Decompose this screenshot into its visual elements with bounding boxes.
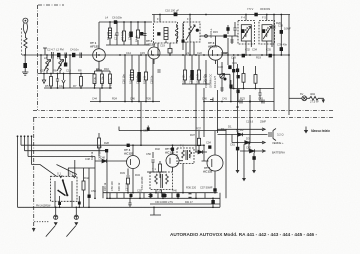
svg-text:PM JA15R3W: PM JA15R3W (36, 204, 51, 207)
svg-text:AC125: AC125 (165, 150, 175, 154)
svg-text:AC125: AC125 (124, 151, 134, 155)
svg-text:C50: C50 (146, 152, 151, 156)
svg-text:D3: D3 (246, 137, 250, 141)
svg-text:C25 10n: C25 10n (188, 74, 192, 84)
svg-text:C6 100n: C6 100n (112, 16, 123, 20)
svg-text:R37: R37 (196, 127, 201, 131)
svg-text:R20: R20 (276, 21, 281, 25)
svg-text:S 2: S 2 (69, 172, 74, 176)
svg-text:C22: C22 (197, 51, 202, 55)
svg-text:F 5: F 5 (262, 16, 266, 20)
svg-text:C43: C43 (258, 97, 263, 101)
svg-text:R24: R24 (112, 97, 117, 101)
svg-text:C41: C41 (222, 97, 227, 101)
svg-text:GAMMA OC: GAMMA OC (209, 74, 213, 88)
svg-text:R4 1k: R4 1k (134, 35, 138, 42)
svg-text:R41 47: R41 47 (185, 201, 193, 204)
svg-text:L4: L4 (105, 16, 108, 20)
svg-text:AF126: AF126 (208, 44, 217, 48)
svg-text:C60 100MF 2,5V: C60 100MF 2,5V (155, 201, 173, 204)
svg-text:6V: 6V (300, 92, 303, 96)
svg-text:R7: R7 (73, 84, 77, 88)
svg-text:C16 10n: C16 10n (121, 74, 125, 84)
svg-text:C57 50: C57 50 (125, 182, 129, 191)
svg-text:C32: C32 (245, 48, 250, 52)
svg-text:OSCILL.: OSCILL. (209, 28, 213, 38)
svg-text:C17 40n: C17 40n (135, 74, 139, 84)
svg-text:R9 2,2k: R9 2,2k (93, 76, 97, 86)
svg-text:R2 22k: R2 22k (106, 31, 110, 40)
svg-text:C29: C29 (231, 56, 236, 60)
svg-text:C2 4.7: C2 4.7 (47, 48, 55, 52)
svg-text:R3 8,2k: R3 8,2k (120, 30, 124, 40)
svg-text:L9: L9 (186, 51, 189, 55)
svg-text:40Ω: 40Ω (310, 92, 315, 96)
svg-text:R8: R8 (78, 69, 82, 73)
svg-text:C19: C19 (160, 44, 165, 48)
svg-text:C46: C46 (130, 97, 135, 101)
svg-text:R5: R5 (45, 84, 49, 88)
svg-text:C58: C58 (91, 189, 96, 193)
svg-text:C34: C34 (252, 48, 257, 52)
svg-text:R10: R10 (104, 67, 109, 71)
svg-text:C26 40n: C26 40n (202, 74, 206, 84)
svg-text:C44: C44 (92, 97, 97, 101)
svg-text:R37: R37 (190, 133, 195, 137)
svg-text:Massa telaio: Massa telaio (311, 129, 330, 133)
svg-text:L7: L7 (57, 56, 60, 60)
svg-text:R36 12: R36 12 (117, 182, 121, 191)
svg-text:R23: R23 (240, 97, 245, 101)
svg-text:F 4: F 4 (241, 16, 245, 20)
svg-text:C15 5n: C15 5n (109, 77, 113, 86)
svg-text:AF125: AF125 (146, 42, 155, 46)
svg-text:C4 10n: C4 10n (70, 48, 79, 52)
svg-text:F 1: F 1 (157, 17, 161, 21)
svg-text:OFF/ON: OFF/ON (260, 7, 270, 11)
svg-text:R14 A 12T: R14 A 12T (213, 75, 217, 88)
svg-text:T 2: T 2 (180, 144, 184, 148)
svg-text:R10 10k: R10 10k (101, 76, 105, 86)
svg-text:R40: R40 (172, 189, 177, 193)
svg-text:R12 4,7k: R12 4,7k (128, 73, 132, 84)
svg-text:27,5 W: 27,5 W (310, 100, 319, 104)
svg-text:R13 1k: R13 1k (142, 75, 146, 84)
svg-text:C56: C56 (157, 189, 162, 193)
svg-text:R9: R9 (96, 67, 100, 71)
svg-text:R17 5,6k: R17 5,6k (195, 73, 199, 84)
svg-text:C30: C30 (218, 65, 223, 69)
svg-text:R16 12k: R16 12k (181, 74, 185, 84)
svg-text:C10 100 pF: C10 100 pF (165, 9, 179, 13)
svg-text:C48: C48 (85, 157, 90, 161)
svg-text:C15: C15 (140, 51, 145, 55)
svg-text:25MF: 25MF (260, 121, 267, 124)
svg-text:R32: R32 (155, 147, 160, 151)
svg-text:F 2: F 2 (187, 17, 191, 21)
svg-text:R19: R19 (256, 56, 261, 60)
svg-text:C13: C13 (66, 69, 71, 73)
svg-text:R15: R15 (213, 30, 218, 34)
svg-text:C57 50MF: C57 50MF (200, 186, 213, 190)
svg-text:C53: C53 (143, 129, 148, 133)
svg-text:R22: R22 (97, 145, 102, 149)
svg-text:C35: C35 (266, 48, 271, 52)
svg-text:AC132: AC132 (203, 169, 213, 173)
svg-text:S 1: S 1 (57, 172, 62, 176)
svg-text:BATTERIA: BATTERIA (272, 151, 285, 155)
svg-text:C62: C62 (246, 146, 251, 150)
svg-text:C54: C54 (206, 141, 211, 145)
svg-text:L6: L6 (44, 56, 47, 60)
svg-text:R33: R33 (120, 171, 125, 175)
svg-text:R26: R26 (146, 97, 151, 101)
svg-text:C31: C31 (232, 61, 237, 65)
svg-text:C14: C14 (126, 51, 131, 55)
svg-text:T 1: T 1 (152, 167, 156, 171)
svg-text:C7 5n: C7 5n (113, 33, 117, 40)
svg-text:AUTORADIO AUTOVOX Modd. RA 44: AUTORADIO AUTOVOX Modd. RA 441 - 442 - 4… (170, 232, 318, 237)
svg-text:C39 40n: C39 40n (277, 43, 288, 47)
svg-text:C53 100MF: C53 100MF (140, 176, 144, 190)
svg-text:7.5 V: 7.5 V (247, 7, 253, 11)
svg-text:VERDE +: VERDE + (272, 141, 284, 145)
svg-text:10MF: 10MF (284, 27, 291, 31)
svg-text:R28 1k: R28 1k (90, 151, 94, 160)
svg-text:C61: C61 (230, 143, 235, 147)
svg-text:R34: R34 (135, 173, 140, 177)
svg-text:3,2 Ω: 3,2 Ω (277, 133, 284, 137)
svg-text:R42: R42 (84, 176, 89, 180)
svg-text:C18 5n: C18 5n (149, 75, 153, 84)
svg-text:C45 10M: C45 10M (97, 149, 101, 160)
svg-text:D1: D1 (221, 127, 225, 131)
svg-text:R35 1k: R35 1k (103, 182, 107, 191)
svg-text:C11: C11 (40, 69, 45, 73)
svg-text:C40: C40 (202, 97, 207, 101)
svg-text:C1 5,6: C1 5,6 (246, 121, 254, 124)
svg-text:D1: D1 (228, 125, 232, 129)
svg-text:L2 FM: L2 FM (56, 48, 64, 52)
svg-text:C8 40n: C8 40n (127, 31, 131, 40)
svg-text:C56 100: C56 100 (110, 181, 114, 191)
svg-text:C28: C28 (223, 51, 228, 55)
svg-text:R28: R28 (104, 141, 109, 145)
svg-text:D2: D2 (240, 128, 244, 132)
svg-text:AF125: AF125 (90, 44, 99, 48)
svg-text:R36 220: R36 220 (186, 186, 197, 190)
svg-text:R6: R6 (53, 69, 57, 73)
svg-text:C12: C12 (59, 84, 64, 88)
